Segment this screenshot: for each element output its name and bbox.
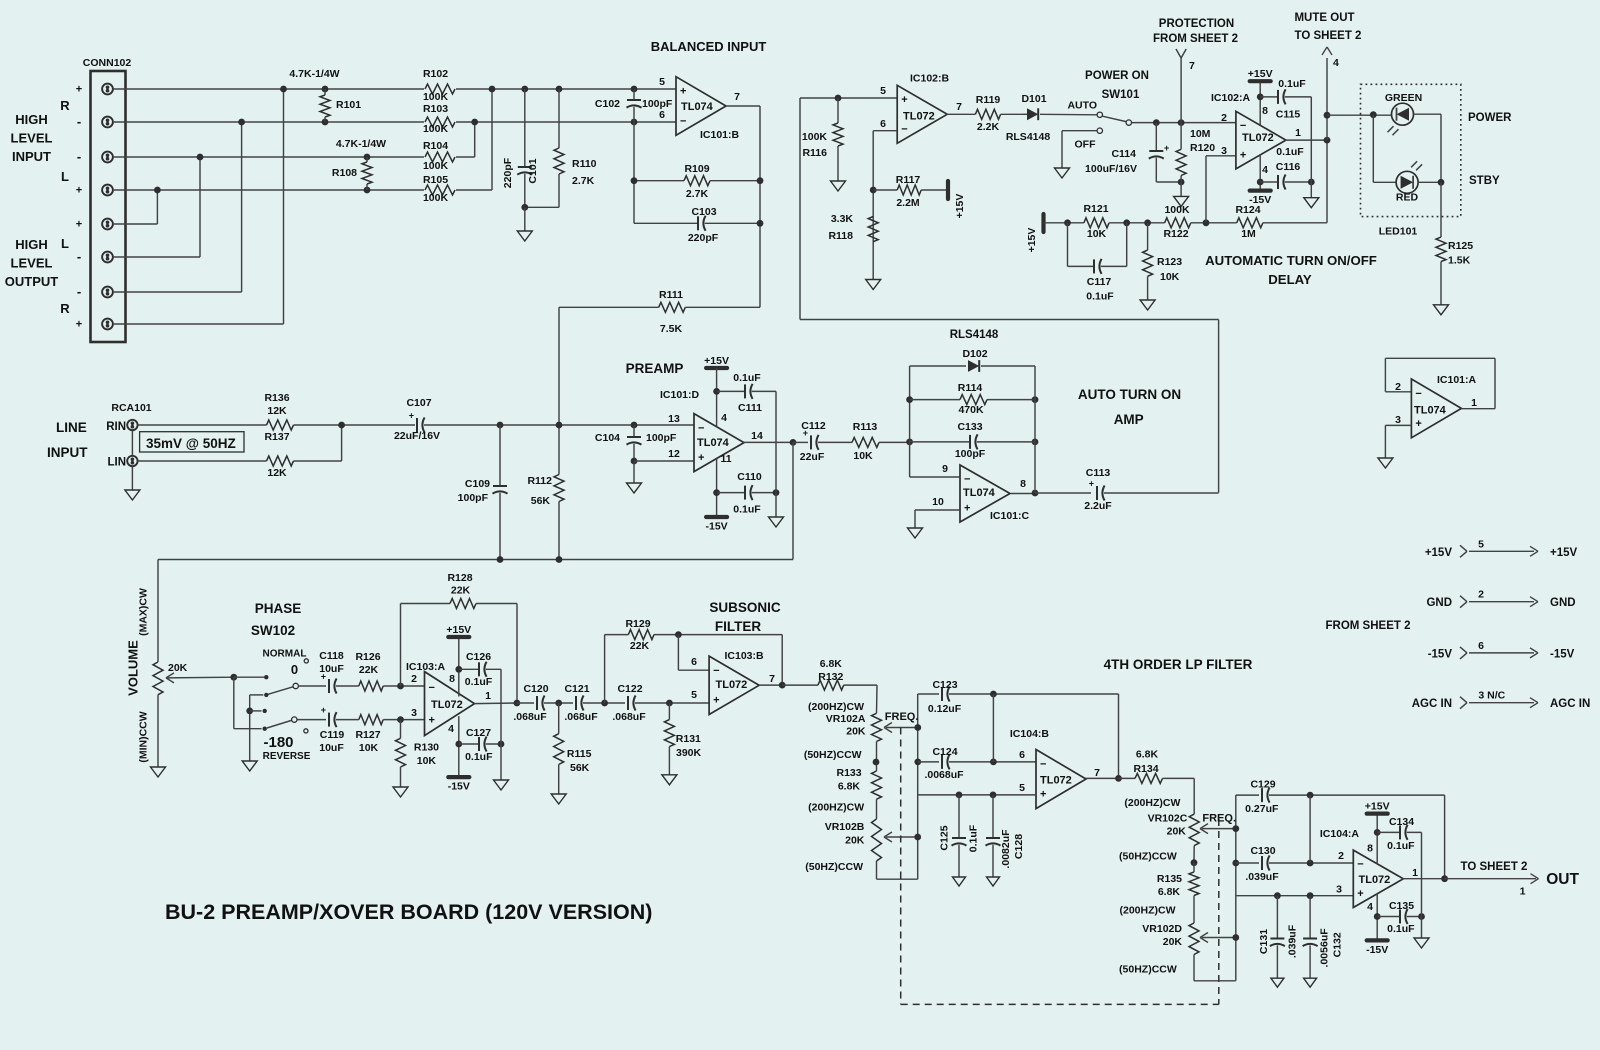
svg-text:6: 6 bbox=[880, 118, 886, 130]
svg-text:OUTPUT: OUTPUT bbox=[5, 274, 59, 289]
svg-text:(200HZ)CW: (200HZ)CW bbox=[808, 802, 864, 814]
svg-text:6.8K: 6.8K bbox=[838, 781, 861, 793]
svg-text:TL072: TL072 bbox=[716, 679, 748, 691]
svg-text:-: - bbox=[77, 149, 81, 164]
svg-text:R: R bbox=[60, 301, 70, 316]
svg-text:1.5K: 1.5K bbox=[1448, 255, 1471, 267]
svg-text:IC103:A: IC103:A bbox=[406, 661, 446, 673]
svg-text:R130: R130 bbox=[414, 742, 439, 754]
svg-text:4: 4 bbox=[1333, 57, 1339, 69]
svg-text:20K: 20K bbox=[1163, 936, 1183, 948]
svg-text:+: + bbox=[76, 185, 82, 197]
svg-text:10uF: 10uF bbox=[319, 742, 344, 754]
svg-text:C125: C125 bbox=[939, 825, 951, 850]
svg-text:C130: C130 bbox=[1250, 845, 1275, 857]
svg-text:−: − bbox=[698, 422, 704, 434]
svg-text:C111: C111 bbox=[738, 402, 762, 414]
svg-text:+: + bbox=[1089, 478, 1094, 488]
svg-text:TL074: TL074 bbox=[1414, 405, 1447, 417]
svg-text:IC101:C: IC101:C bbox=[990, 510, 1030, 522]
svg-text:C116: C116 bbox=[1276, 161, 1301, 173]
svg-text:MUTE OUT: MUTE OUT bbox=[1294, 12, 1354, 24]
svg-text:56K: 56K bbox=[531, 495, 551, 507]
svg-text:TL072: TL072 bbox=[903, 111, 935, 123]
svg-text:4: 4 bbox=[1367, 901, 1373, 913]
svg-text:C128: C128 bbox=[1013, 834, 1025, 859]
svg-text:0.27uF: 0.27uF bbox=[1245, 803, 1279, 815]
svg-text:C109: C109 bbox=[465, 478, 490, 490]
svg-text:0.1uF: 0.1uF bbox=[1086, 291, 1114, 303]
svg-text:IC102:B: IC102:B bbox=[910, 73, 950, 85]
svg-text:TL074: TL074 bbox=[697, 437, 730, 449]
svg-text:REVERSE: REVERSE bbox=[263, 751, 311, 762]
svg-text:C121: C121 bbox=[564, 683, 589, 695]
svg-text:VR102B: VR102B bbox=[825, 821, 865, 833]
svg-text:SW101: SW101 bbox=[1102, 89, 1140, 101]
svg-text:+15V: +15V bbox=[1365, 801, 1390, 813]
svg-text:C132: C132 bbox=[1332, 932, 1344, 957]
svg-text:−: − bbox=[964, 473, 970, 485]
svg-text:L: L bbox=[61, 236, 69, 251]
svg-text:13: 13 bbox=[668, 413, 680, 425]
svg-text:4: 4 bbox=[1262, 164, 1268, 176]
svg-text:0.1uF: 0.1uF bbox=[1387, 923, 1415, 935]
svg-text:1M: 1M bbox=[1241, 228, 1256, 240]
svg-text:−: − bbox=[680, 116, 686, 128]
svg-text:R104: R104 bbox=[423, 140, 448, 152]
svg-text:7.5K: 7.5K bbox=[660, 323, 683, 335]
svg-text:INPUT: INPUT bbox=[12, 149, 51, 164]
svg-text:PROTECTION: PROTECTION bbox=[1159, 18, 1234, 30]
svg-text:R109: R109 bbox=[684, 163, 709, 175]
svg-text:IC101:B: IC101:B bbox=[700, 129, 740, 141]
svg-text:R134: R134 bbox=[1133, 763, 1158, 775]
svg-text:0: 0 bbox=[291, 662, 298, 677]
svg-text:TL072: TL072 bbox=[1359, 874, 1391, 886]
svg-text:56K: 56K bbox=[570, 762, 590, 774]
svg-text:6.8K: 6.8K bbox=[820, 658, 843, 670]
svg-text:+15V: +15V bbox=[954, 194, 966, 219]
svg-text:AUTO TURN ON: AUTO TURN ON bbox=[1078, 387, 1181, 402]
svg-text:TO SHEET 2: TO SHEET 2 bbox=[1295, 30, 1362, 42]
svg-text:VR102A: VR102A bbox=[826, 713, 866, 725]
svg-text:RCA101: RCA101 bbox=[111, 402, 151, 414]
svg-text:100K: 100K bbox=[802, 131, 828, 143]
svg-text:100K: 100K bbox=[423, 123, 449, 135]
svg-text:+: + bbox=[1164, 143, 1169, 153]
svg-text:PREAMP: PREAMP bbox=[626, 361, 684, 376]
svg-text:10K: 10K bbox=[1087, 228, 1107, 240]
svg-text:(MIN)CCW: (MIN)CCW bbox=[137, 711, 149, 762]
svg-text:-15V: -15V bbox=[448, 781, 470, 793]
svg-text:OUT: OUT bbox=[1546, 871, 1579, 888]
svg-text:10K: 10K bbox=[359, 742, 379, 754]
svg-text:5: 5 bbox=[880, 85, 886, 97]
svg-text:11: 11 bbox=[720, 453, 731, 465]
svg-text:CONN102: CONN102 bbox=[83, 57, 132, 69]
svg-text:3: 3 bbox=[411, 707, 417, 719]
svg-text:-15V: -15V bbox=[1428, 648, 1453, 660]
svg-text:C118: C118 bbox=[319, 650, 344, 662]
svg-text:(50HZ)CCW: (50HZ)CCW bbox=[1119, 964, 1177, 976]
svg-text:20K: 20K bbox=[846, 726, 866, 738]
svg-text:+: + bbox=[1357, 888, 1363, 900]
svg-text:R101: R101 bbox=[336, 99, 361, 111]
svg-text:+: + bbox=[76, 219, 82, 231]
svg-text:C103: C103 bbox=[691, 206, 716, 218]
svg-text:.0056uF: .0056uF bbox=[1319, 928, 1331, 968]
svg-text:100pF: 100pF bbox=[458, 492, 489, 504]
svg-text:6.8K: 6.8K bbox=[1136, 749, 1159, 761]
svg-text:TL072: TL072 bbox=[1040, 775, 1072, 787]
svg-text:-15V: -15V bbox=[706, 521, 728, 533]
svg-text:6: 6 bbox=[1019, 749, 1025, 761]
svg-text:0.1uF: 0.1uF bbox=[465, 751, 493, 763]
svg-text:TL074: TL074 bbox=[681, 101, 714, 113]
svg-text:R133: R133 bbox=[836, 767, 861, 779]
svg-text:5: 5 bbox=[1478, 538, 1484, 550]
svg-text:C131: C131 bbox=[1258, 929, 1270, 954]
svg-text:VOLUME: VOLUME bbox=[126, 640, 141, 696]
svg-text:12K: 12K bbox=[267, 467, 287, 479]
svg-text:220pF: 220pF bbox=[502, 157, 514, 188]
svg-text:-: - bbox=[77, 114, 81, 129]
svg-text:C120: C120 bbox=[523, 683, 548, 695]
svg-text:R116: R116 bbox=[802, 147, 827, 159]
svg-text:100K: 100K bbox=[423, 192, 449, 204]
svg-text:6.8K: 6.8K bbox=[1158, 886, 1181, 898]
svg-text:20K: 20K bbox=[1167, 826, 1187, 838]
svg-text:2.7K: 2.7K bbox=[686, 188, 709, 200]
svg-text:LINE: LINE bbox=[56, 420, 87, 435]
svg-text:10K: 10K bbox=[853, 450, 873, 462]
svg-text:R110: R110 bbox=[572, 158, 597, 170]
svg-text:TO SHEET 2: TO SHEET 2 bbox=[1461, 861, 1528, 873]
svg-text:POWER ON: POWER ON bbox=[1085, 70, 1149, 82]
svg-text:7: 7 bbox=[1189, 60, 1195, 72]
svg-text:2.2K: 2.2K bbox=[977, 121, 1000, 133]
svg-text:.039uF: .039uF bbox=[1286, 924, 1298, 958]
svg-text:FREQ.: FREQ. bbox=[885, 711, 919, 723]
svg-text:AUTOMATIC TURN ON/OFF: AUTOMATIC TURN ON/OFF bbox=[1205, 253, 1377, 268]
svg-text:RLS4148: RLS4148 bbox=[1006, 131, 1051, 143]
svg-text:(50HZ)CCW: (50HZ)CCW bbox=[805, 861, 863, 873]
svg-text:0.1uF: 0.1uF bbox=[1278, 78, 1306, 90]
svg-text:+: + bbox=[680, 86, 686, 98]
svg-text:10uF: 10uF bbox=[319, 663, 344, 675]
svg-text:1: 1 bbox=[1520, 886, 1526, 898]
svg-text:8: 8 bbox=[449, 673, 455, 685]
svg-text:R114: R114 bbox=[958, 382, 983, 394]
svg-text:-: - bbox=[77, 284, 81, 299]
svg-text:0.1uF: 0.1uF bbox=[733, 372, 761, 384]
svg-text:R128: R128 bbox=[447, 572, 472, 584]
svg-text:STBY: STBY bbox=[1469, 175, 1500, 187]
svg-text:FROM SHEET 2: FROM SHEET 2 bbox=[1326, 620, 1411, 632]
svg-text:LIN: LIN bbox=[107, 457, 126, 469]
svg-text:.0082uF: .0082uF bbox=[1000, 829, 1012, 869]
svg-text:L: L bbox=[61, 169, 69, 184]
svg-text:−: − bbox=[1357, 859, 1363, 871]
svg-text:NORMAL: NORMAL bbox=[263, 649, 307, 660]
svg-text:FREQ.: FREQ. bbox=[1202, 813, 1236, 825]
svg-text:4: 4 bbox=[721, 412, 727, 424]
svg-text:R108: R108 bbox=[332, 167, 357, 179]
svg-text:LEVEL: LEVEL bbox=[11, 131, 53, 146]
svg-text:+15V: +15V bbox=[1026, 228, 1038, 253]
svg-text:+: + bbox=[409, 410, 414, 420]
svg-text:390K: 390K bbox=[676, 747, 702, 759]
svg-text:LED101: LED101 bbox=[1379, 226, 1418, 238]
svg-text:12: 12 bbox=[668, 448, 680, 460]
svg-text:POWER: POWER bbox=[1468, 112, 1512, 124]
svg-text:470K: 470K bbox=[958, 404, 984, 416]
svg-text:0.1uF: 0.1uF bbox=[968, 824, 980, 852]
svg-text:C113: C113 bbox=[1086, 467, 1111, 479]
svg-text:IC104:A: IC104:A bbox=[1320, 828, 1360, 840]
svg-text:22uF: 22uF bbox=[800, 451, 825, 463]
svg-text:5: 5 bbox=[659, 76, 665, 88]
svg-text:R122: R122 bbox=[1163, 228, 1188, 240]
svg-text:3: 3 bbox=[1336, 884, 1342, 896]
svg-text:4.7K-1/4W: 4.7K-1/4W bbox=[336, 138, 386, 150]
svg-text:FROM SHEET 2: FROM SHEET 2 bbox=[1153, 33, 1238, 45]
svg-text:GND: GND bbox=[1550, 597, 1576, 609]
svg-text:0.1uF: 0.1uF bbox=[733, 504, 761, 516]
svg-text:100pF: 100pF bbox=[646, 432, 677, 444]
svg-text:DELAY: DELAY bbox=[1268, 272, 1312, 287]
svg-text:22K: 22K bbox=[630, 640, 650, 652]
svg-text:−: − bbox=[1240, 120, 1246, 132]
svg-text:7: 7 bbox=[1094, 767, 1100, 779]
svg-text:GND: GND bbox=[1426, 597, 1452, 609]
svg-text:-15V: -15V bbox=[1550, 648, 1575, 660]
svg-text:D101: D101 bbox=[1021, 93, 1046, 105]
svg-text:C102: C102 bbox=[595, 98, 620, 110]
svg-text:RED: RED bbox=[1396, 192, 1419, 204]
svg-text:IC104:B: IC104:B bbox=[1010, 728, 1050, 740]
svg-text:-15V: -15V bbox=[1249, 194, 1271, 206]
svg-text:+: + bbox=[964, 503, 970, 515]
svg-text:2: 2 bbox=[1221, 112, 1227, 124]
svg-text:22K: 22K bbox=[451, 585, 471, 597]
svg-text:+: + bbox=[76, 319, 82, 331]
svg-text:R121: R121 bbox=[1083, 203, 1108, 215]
svg-text:AGC IN: AGC IN bbox=[1550, 698, 1590, 710]
svg-text:10M: 10M bbox=[1190, 128, 1211, 140]
svg-text:−: − bbox=[1415, 388, 1421, 400]
svg-text:0.1uF: 0.1uF bbox=[1276, 146, 1304, 158]
svg-text:+15V: +15V bbox=[446, 624, 471, 636]
svg-text:R112: R112 bbox=[527, 475, 552, 487]
svg-text:35mV @ 50HZ: 35mV @ 50HZ bbox=[146, 436, 236, 451]
svg-text:C126: C126 bbox=[466, 651, 491, 663]
svg-text:R118: R118 bbox=[828, 230, 853, 242]
svg-text:R131: R131 bbox=[676, 733, 701, 745]
svg-text:2.2uF: 2.2uF bbox=[1084, 500, 1112, 512]
svg-text:AGC IN: AGC IN bbox=[1412, 698, 1452, 710]
svg-text:+15V: +15V bbox=[1425, 547, 1453, 559]
svg-text:4.7K-1/4W: 4.7K-1/4W bbox=[289, 68, 339, 80]
svg-text:R102: R102 bbox=[423, 68, 448, 80]
svg-text:(MAX)CW: (MAX)CW bbox=[137, 588, 149, 636]
svg-text:8: 8 bbox=[1262, 105, 1268, 117]
svg-text:HIGH: HIGH bbox=[15, 237, 48, 252]
svg-text:R113: R113 bbox=[853, 421, 878, 433]
svg-text:.068uF: .068uF bbox=[612, 711, 646, 723]
svg-text:8: 8 bbox=[1367, 843, 1373, 855]
svg-text:9: 9 bbox=[942, 463, 948, 475]
svg-text:2: 2 bbox=[1478, 589, 1484, 601]
svg-text:7: 7 bbox=[734, 91, 740, 103]
svg-text:INPUT: INPUT bbox=[47, 445, 88, 460]
svg-text:100pF: 100pF bbox=[642, 98, 673, 110]
svg-text:C110: C110 bbox=[737, 471, 762, 483]
svg-text:12K: 12K bbox=[267, 405, 287, 417]
svg-text:R125: R125 bbox=[1448, 240, 1473, 252]
svg-text:C135: C135 bbox=[1389, 900, 1414, 912]
svg-text:C114: C114 bbox=[1111, 148, 1136, 160]
svg-text:+15V: +15V bbox=[704, 355, 729, 367]
svg-text:C129: C129 bbox=[1250, 779, 1275, 791]
svg-text:GREEN: GREEN bbox=[1385, 92, 1422, 104]
svg-text:1: 1 bbox=[1412, 867, 1418, 879]
svg-text:R129: R129 bbox=[625, 618, 650, 630]
svg-text:BU-2 PREAMP/XOVER BOARD (120V: BU-2 PREAMP/XOVER BOARD (120V VERSION) bbox=[165, 900, 652, 924]
svg-text:14: 14 bbox=[751, 430, 763, 442]
svg-text:PHASE: PHASE bbox=[255, 601, 302, 616]
svg-text:100pF: 100pF bbox=[955, 448, 986, 460]
svg-text:4: 4 bbox=[448, 723, 454, 735]
svg-text:R105: R105 bbox=[423, 174, 448, 186]
svg-text:5: 5 bbox=[1019, 782, 1025, 794]
svg-text:R111: R111 bbox=[659, 289, 683, 301]
svg-text:C119: C119 bbox=[320, 729, 345, 741]
svg-text:3.3K: 3.3K bbox=[831, 213, 854, 225]
svg-text:R120: R120 bbox=[1190, 142, 1215, 154]
svg-text:20K: 20K bbox=[168, 662, 188, 674]
svg-text:IC103:B: IC103:B bbox=[725, 650, 765, 662]
svg-text:+: + bbox=[76, 84, 82, 96]
svg-text:100K: 100K bbox=[423, 160, 449, 172]
svg-text:+: + bbox=[1040, 789, 1046, 801]
svg-text:20K: 20K bbox=[845, 835, 865, 847]
svg-text:22uF/16V: 22uF/16V bbox=[394, 430, 440, 442]
svg-text:C101: C101 bbox=[527, 158, 539, 183]
svg-text:C134: C134 bbox=[1389, 816, 1414, 828]
svg-text:1: 1 bbox=[1471, 397, 1477, 409]
svg-text:TL074: TL074 bbox=[963, 487, 996, 499]
svg-text:R136: R136 bbox=[264, 392, 289, 404]
svg-text:220pF: 220pF bbox=[688, 232, 719, 244]
svg-text:4TH ORDER LP FILTER: 4TH ORDER LP FILTER bbox=[1104, 657, 1253, 672]
svg-text:3: 3 bbox=[1395, 414, 1401, 426]
svg-text:2.7K: 2.7K bbox=[572, 175, 595, 187]
svg-text:R103: R103 bbox=[423, 103, 448, 115]
svg-text:1: 1 bbox=[1295, 127, 1301, 139]
svg-text:1: 1 bbox=[485, 690, 491, 702]
svg-text:.068uF: .068uF bbox=[513, 711, 547, 723]
svg-text:5: 5 bbox=[691, 689, 697, 701]
svg-text:10K: 10K bbox=[417, 755, 437, 767]
svg-text:2: 2 bbox=[1338, 850, 1344, 862]
svg-text:22K: 22K bbox=[359, 664, 379, 676]
svg-text:C123: C123 bbox=[932, 679, 957, 691]
svg-text:OFF: OFF bbox=[1075, 139, 1097, 151]
svg-text:R115: R115 bbox=[567, 748, 592, 760]
svg-text:R119: R119 bbox=[976, 94, 1001, 106]
svg-text:3 N/C: 3 N/C bbox=[1478, 690, 1505, 702]
svg-text:IC102:A: IC102:A bbox=[1211, 92, 1251, 104]
svg-text:HIGH: HIGH bbox=[15, 112, 48, 127]
svg-text:2: 2 bbox=[411, 673, 417, 685]
svg-text:+: + bbox=[321, 705, 326, 715]
svg-text:0.1uF: 0.1uF bbox=[1387, 840, 1415, 852]
svg-text:R123: R123 bbox=[1157, 256, 1182, 268]
svg-text:7: 7 bbox=[956, 101, 962, 113]
svg-text:100K: 100K bbox=[1164, 204, 1190, 216]
svg-text:10: 10 bbox=[932, 496, 944, 508]
svg-text:VR102C: VR102C bbox=[1148, 813, 1188, 825]
svg-text:+: + bbox=[1415, 418, 1421, 430]
svg-text:SW102: SW102 bbox=[251, 623, 295, 638]
svg-text:C112: C112 bbox=[801, 420, 826, 432]
svg-text:R117: R117 bbox=[896, 174, 921, 186]
svg-text:IC101:A: IC101:A bbox=[1437, 374, 1477, 386]
svg-text:-15V: -15V bbox=[1366, 944, 1388, 956]
svg-text:2.2M: 2.2M bbox=[896, 197, 920, 209]
svg-text:+: + bbox=[713, 695, 719, 707]
svg-text:C115: C115 bbox=[1276, 109, 1301, 121]
svg-text:+: + bbox=[429, 714, 435, 726]
svg-text:C107: C107 bbox=[406, 397, 431, 409]
svg-text:+15V: +15V bbox=[1550, 547, 1578, 559]
svg-text:10K: 10K bbox=[1160, 271, 1180, 283]
svg-text:VR102D: VR102D bbox=[1142, 923, 1182, 935]
svg-text:BALANCED INPUT: BALANCED INPUT bbox=[651, 39, 767, 54]
svg-text:R127: R127 bbox=[355, 729, 380, 741]
svg-text:C133: C133 bbox=[957, 421, 982, 433]
svg-text:+: + bbox=[901, 94, 907, 106]
svg-text:0.1uF: 0.1uF bbox=[465, 676, 493, 688]
svg-text:IC101:D: IC101:D bbox=[660, 389, 700, 401]
svg-text:(50HZ)CCW: (50HZ)CCW bbox=[1119, 851, 1177, 863]
svg-text:-: - bbox=[77, 249, 81, 264]
svg-text:AMP: AMP bbox=[1114, 412, 1144, 427]
svg-text:.039uF: .039uF bbox=[1245, 871, 1279, 883]
svg-text:6: 6 bbox=[659, 109, 665, 121]
svg-text:3: 3 bbox=[1221, 145, 1227, 157]
svg-text:RLS4148: RLS4148 bbox=[950, 329, 999, 341]
svg-text:2: 2 bbox=[1395, 381, 1401, 393]
svg-text:100uF/16V: 100uF/16V bbox=[1085, 163, 1137, 175]
svg-text:.0068uF: .0068uF bbox=[924, 769, 964, 781]
svg-text:R126: R126 bbox=[355, 651, 380, 663]
svg-text:TL072: TL072 bbox=[1242, 132, 1274, 144]
svg-text:8: 8 bbox=[1020, 478, 1026, 490]
svg-text:.068uF: .068uF bbox=[564, 711, 598, 723]
svg-text:D102: D102 bbox=[962, 348, 987, 360]
svg-text:0.12uF: 0.12uF bbox=[928, 703, 962, 715]
svg-text:C104: C104 bbox=[595, 432, 620, 444]
svg-text:C117: C117 bbox=[1087, 276, 1112, 288]
svg-text:−: − bbox=[901, 124, 907, 136]
svg-text:−: − bbox=[713, 665, 719, 677]
svg-text:-180: -180 bbox=[263, 734, 293, 751]
svg-text:(50HZ)CCW: (50HZ)CCW bbox=[804, 749, 862, 761]
svg-text:SUBSONIC: SUBSONIC bbox=[709, 600, 781, 615]
svg-text:−: − bbox=[1040, 759, 1046, 771]
